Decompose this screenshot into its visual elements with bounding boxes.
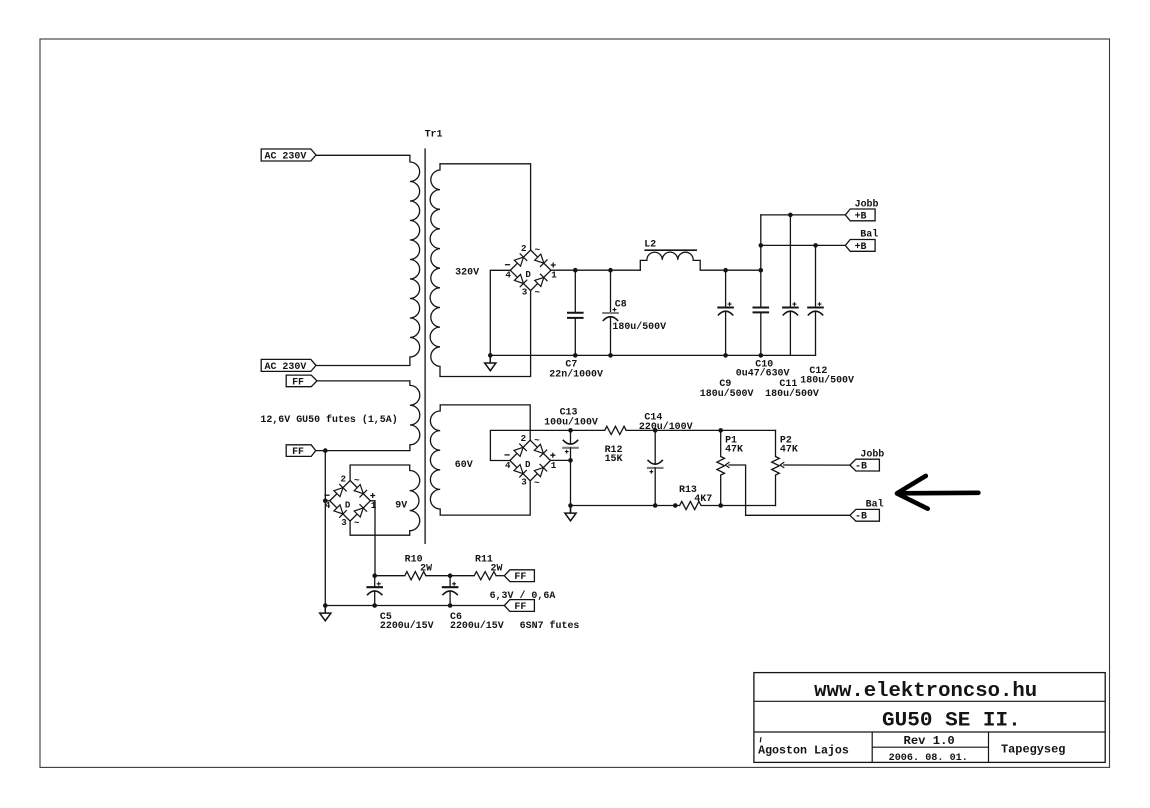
title block frame xyxy=(754,673,1105,763)
port FF heater top xyxy=(286,375,317,387)
wire FF top to 12.6V winding xyxy=(317,380,410,382)
bridge rectifier D2 (9V heater supply) xyxy=(330,481,371,522)
capacitor C9 xyxy=(725,270,727,307)
ground at heater bus xyxy=(323,603,328,608)
wire Jobb +B rail xyxy=(761,214,846,216)
svg-text:~: ~ xyxy=(534,477,540,488)
port Jobb -B xyxy=(850,459,880,471)
capacitor C10 riser to +B rails xyxy=(760,215,762,270)
svg-text:1: 1 xyxy=(551,460,557,471)
svg-text:D: D xyxy=(525,459,531,470)
svg-text:-B: -B xyxy=(855,461,867,472)
svg-text:2200u/15V: 2200u/15V xyxy=(450,620,504,631)
resistor R12 xyxy=(571,429,605,431)
ground at bias supply xyxy=(568,503,573,508)
svg-text:+B: +B xyxy=(855,241,867,252)
svg-text:Tr1: Tr1 xyxy=(425,129,443,140)
wire heater node to R10 xyxy=(375,575,405,577)
svg-text:Jobb: Jobb xyxy=(860,448,884,459)
port Jobb +B xyxy=(845,209,875,221)
capacitor C7 xyxy=(574,270,576,313)
capacitor C8 xyxy=(610,270,612,313)
svg-text:Bal: Bal xyxy=(866,498,884,509)
wire 320V top to bridge D1 xyxy=(440,164,531,250)
capacitor C10 xyxy=(760,270,762,307)
svg-text:1: 1 xyxy=(371,500,377,511)
svg-text:12,6V GU50 futes (1,5A): 12,6V GU50 futes (1,5A) xyxy=(260,414,397,425)
transformer 9V winding xyxy=(410,465,420,535)
resistor R10 xyxy=(405,572,426,580)
svg-text:22n/1000V: 22n/1000V xyxy=(549,369,603,380)
wire bridge D3 plus to C13 bottom xyxy=(551,459,571,461)
resistor R13 xyxy=(680,501,702,509)
wire bias top rail to P1 P2 xyxy=(655,429,775,431)
inductor L2 xyxy=(640,260,647,270)
wire bridge D1 minus to ground xyxy=(490,270,510,355)
capacitor C12 xyxy=(815,245,817,307)
svg-text:FF: FF xyxy=(514,601,526,612)
svg-text:6SN7 futes: 6SN7 futes xyxy=(520,620,580,631)
resistor R11 xyxy=(474,572,496,580)
wire bridge D2 plus down to C5/R10 node xyxy=(370,501,375,576)
svg-text:Jobb: Jobb xyxy=(855,198,879,209)
svg-text:FF: FF xyxy=(292,376,304,387)
wire Bal +B rail xyxy=(761,244,846,246)
svg-text:1: 1 xyxy=(551,270,557,281)
ground at bridge D1 minus xyxy=(488,353,493,358)
svg-text:AC 230V: AC 230V xyxy=(265,150,307,161)
wire P2 wiper to Jobb -B xyxy=(784,464,850,466)
wire R11 to FF port xyxy=(496,575,504,577)
svg-text:~: ~ xyxy=(354,518,360,529)
title block row lines xyxy=(754,701,1105,762)
svg-text:4K7: 4K7 xyxy=(694,493,712,504)
svg-text:AC 230V: AC 230V xyxy=(265,361,307,372)
wire 320V bottom to bridge D1 xyxy=(440,291,531,377)
svg-text:FF: FF xyxy=(292,446,304,457)
svg-text:C8: C8 xyxy=(615,299,627,310)
wire 60V bottom to bridge D3 xyxy=(440,481,530,515)
svg-text:3: 3 xyxy=(341,517,347,528)
wire primary top to AC connector xyxy=(316,154,410,156)
wire P1 wiper to Bal -B xyxy=(729,465,850,515)
transformer 60V winding xyxy=(430,405,440,515)
svg-text:60V: 60V xyxy=(455,459,473,470)
svg-text:3: 3 xyxy=(521,477,527,488)
port Bal +B xyxy=(845,240,875,252)
svg-text:Agoston Lajos: Agoston Lajos xyxy=(758,744,849,758)
svg-text:2: 2 xyxy=(341,473,347,484)
capacitor C13 xyxy=(570,430,572,444)
heater ground bus xyxy=(325,605,504,607)
svg-text:GU50 SE II.: GU50 SE II. xyxy=(882,710,1021,733)
transformer 12.6V heater winding xyxy=(410,381,420,451)
port FF heater bottom xyxy=(286,445,316,457)
svg-text:Rev 1.0: Rev 1.0 xyxy=(904,734,955,748)
wire R10 to C6 node xyxy=(426,575,474,577)
port Bal -B xyxy=(850,509,880,521)
bridge rectifier D1 (HT supply) xyxy=(510,250,551,291)
wire FF junction down to heater ground bus xyxy=(324,451,326,606)
junction bridge D2 minus xyxy=(323,499,328,504)
wire B+ node to C10 riser xyxy=(726,269,761,271)
port FF out top xyxy=(504,570,534,582)
transformer 320V winding xyxy=(430,164,440,377)
bridge rectifier D3 (bias supply) xyxy=(510,440,551,481)
capacitor C5 xyxy=(374,576,376,588)
potentiometer P2 xyxy=(775,430,777,456)
svg-text:47K: 47K xyxy=(780,443,798,454)
svg-text:47K: 47K xyxy=(725,443,743,454)
wire bridge D3 minus loop to bias rail xyxy=(490,430,570,460)
ground bus HT filter xyxy=(490,354,815,356)
transformer Tr1 core xyxy=(424,149,426,543)
svg-text:180u/500V: 180u/500V xyxy=(765,388,819,399)
svg-text:3: 3 xyxy=(522,287,528,298)
transformer primary winding (mains) xyxy=(410,155,420,357)
svg-text:2: 2 xyxy=(521,243,527,254)
annotation arrow xyxy=(897,476,978,509)
svg-text:180u/500V: 180u/500V xyxy=(800,374,854,385)
svg-text:~: ~ xyxy=(534,435,540,446)
port AC 230V bottom xyxy=(261,359,316,371)
svg-text:+B: +B xyxy=(855,210,867,221)
svg-text:www.elektroncso.hu: www.elektroncso.hu xyxy=(814,680,1037,703)
capacitor C14 xyxy=(654,430,656,464)
capacitor C6 xyxy=(449,576,451,588)
svg-text:L2: L2 xyxy=(644,238,656,249)
junction FF net xyxy=(323,448,328,453)
svg-text:-B: -B xyxy=(855,511,867,522)
svg-text:~: ~ xyxy=(535,287,541,298)
svg-text:2: 2 xyxy=(521,433,527,444)
svg-text:9V: 9V xyxy=(395,499,407,510)
svg-text:2006. 08. 01.: 2006. 08. 01. xyxy=(889,753,968,764)
inductor L2 core bar xyxy=(645,249,696,251)
wire C13 to bias ground xyxy=(570,460,572,505)
capacitor C11 xyxy=(789,215,791,308)
wire bridge D2 minus to FF net xyxy=(325,500,330,502)
port FF out bottom xyxy=(504,600,534,612)
svg-text:15K: 15K xyxy=(605,453,623,464)
svg-text:Tapegyseg: Tapegyseg xyxy=(1001,743,1065,757)
svg-text:D: D xyxy=(525,269,531,280)
wire 60V top to bridge D3 xyxy=(440,405,530,440)
wire 9V winding top to bridge D2 xyxy=(350,465,410,481)
svg-text:4: 4 xyxy=(505,460,511,471)
port AC 230V top xyxy=(261,149,316,161)
svg-text:Bal: Bal xyxy=(860,229,878,240)
svg-text:2200u/15V: 2200u/15V xyxy=(380,620,434,631)
wire primary bottom to AC connector xyxy=(316,357,410,366)
svg-text:~: ~ xyxy=(354,475,360,486)
wire FF bottom to 12.6V winding xyxy=(316,450,410,452)
svg-text:FF: FF xyxy=(514,571,526,582)
svg-text:4: 4 xyxy=(505,270,511,281)
svg-text:~: ~ xyxy=(535,245,541,256)
wire 9V winding bottom to bridge D2 xyxy=(350,521,410,535)
potentiometer P1 xyxy=(720,430,722,456)
wire bias bottom bus xyxy=(571,505,680,507)
svg-text:2W: 2W xyxy=(491,563,503,574)
wire bias bottom bus right xyxy=(721,505,776,507)
svg-text:100u/100V: 100u/100V xyxy=(544,416,598,427)
wire bridge D1 plus to B+ rail xyxy=(551,269,640,271)
svg-text:320V: 320V xyxy=(455,267,479,278)
svg-text:0u47/630V: 0u47/630V xyxy=(736,368,790,379)
svg-text:180u/500V: 180u/500V xyxy=(612,321,666,332)
svg-text:180u/500V: 180u/500V xyxy=(700,388,754,399)
svg-text:D: D xyxy=(345,499,351,510)
svg-text:2W: 2W xyxy=(420,563,432,574)
